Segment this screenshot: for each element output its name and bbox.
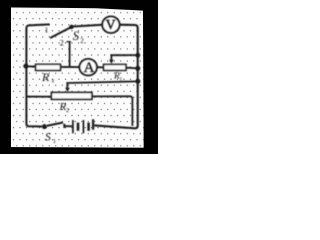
- svg-text:V: V: [106, 17, 116, 32]
- svg-text:A: A: [84, 60, 95, 76]
- svg-text:S: S: [73, 29, 80, 43]
- svg-text:S: S: [45, 132, 51, 144]
- svg-text:1: 1: [45, 26, 49, 35]
- svg-text:1: 1: [53, 138, 56, 145]
- svg-text:2: 2: [80, 37, 84, 45]
- svg-text:R: R: [41, 70, 50, 84]
- svg-text:2: 2: [60, 38, 64, 47]
- svg-text:2: 2: [66, 108, 69, 114]
- svg-text:1: 1: [120, 76, 123, 82]
- svg-text:x: x: [51, 79, 55, 85]
